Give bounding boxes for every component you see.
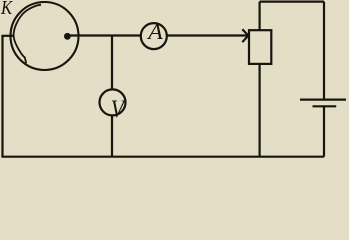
wire box bottom <box>259 64 261 157</box>
left wire <box>1 36 3 157</box>
anode wire (main horizontal) <box>67 34 248 36</box>
bottom wire <box>1 156 324 158</box>
voltmeter V circle <box>100 89 126 115</box>
top wire <box>260 1 324 3</box>
svg-text:A: A <box>146 20 164 45</box>
voltmeter branch wire <box>111 36 113 157</box>
right wire upper <box>323 2 325 100</box>
right wire lower <box>323 106 325 156</box>
svg-text:K: K <box>0 0 13 18</box>
wire box top <box>259 2 261 31</box>
cathode lead stub <box>1 35 13 37</box>
svg-text:V: V <box>111 96 127 124</box>
rheostat box <box>249 30 271 64</box>
cathode K arc <box>14 5 41 64</box>
phototube envelope <box>11 2 79 70</box>
anode dot <box>64 33 71 40</box>
battery long plate <box>300 98 346 100</box>
battery short plate <box>313 105 337 107</box>
ammeter A circle <box>141 23 167 49</box>
arrowhead into rheostat <box>242 29 248 42</box>
